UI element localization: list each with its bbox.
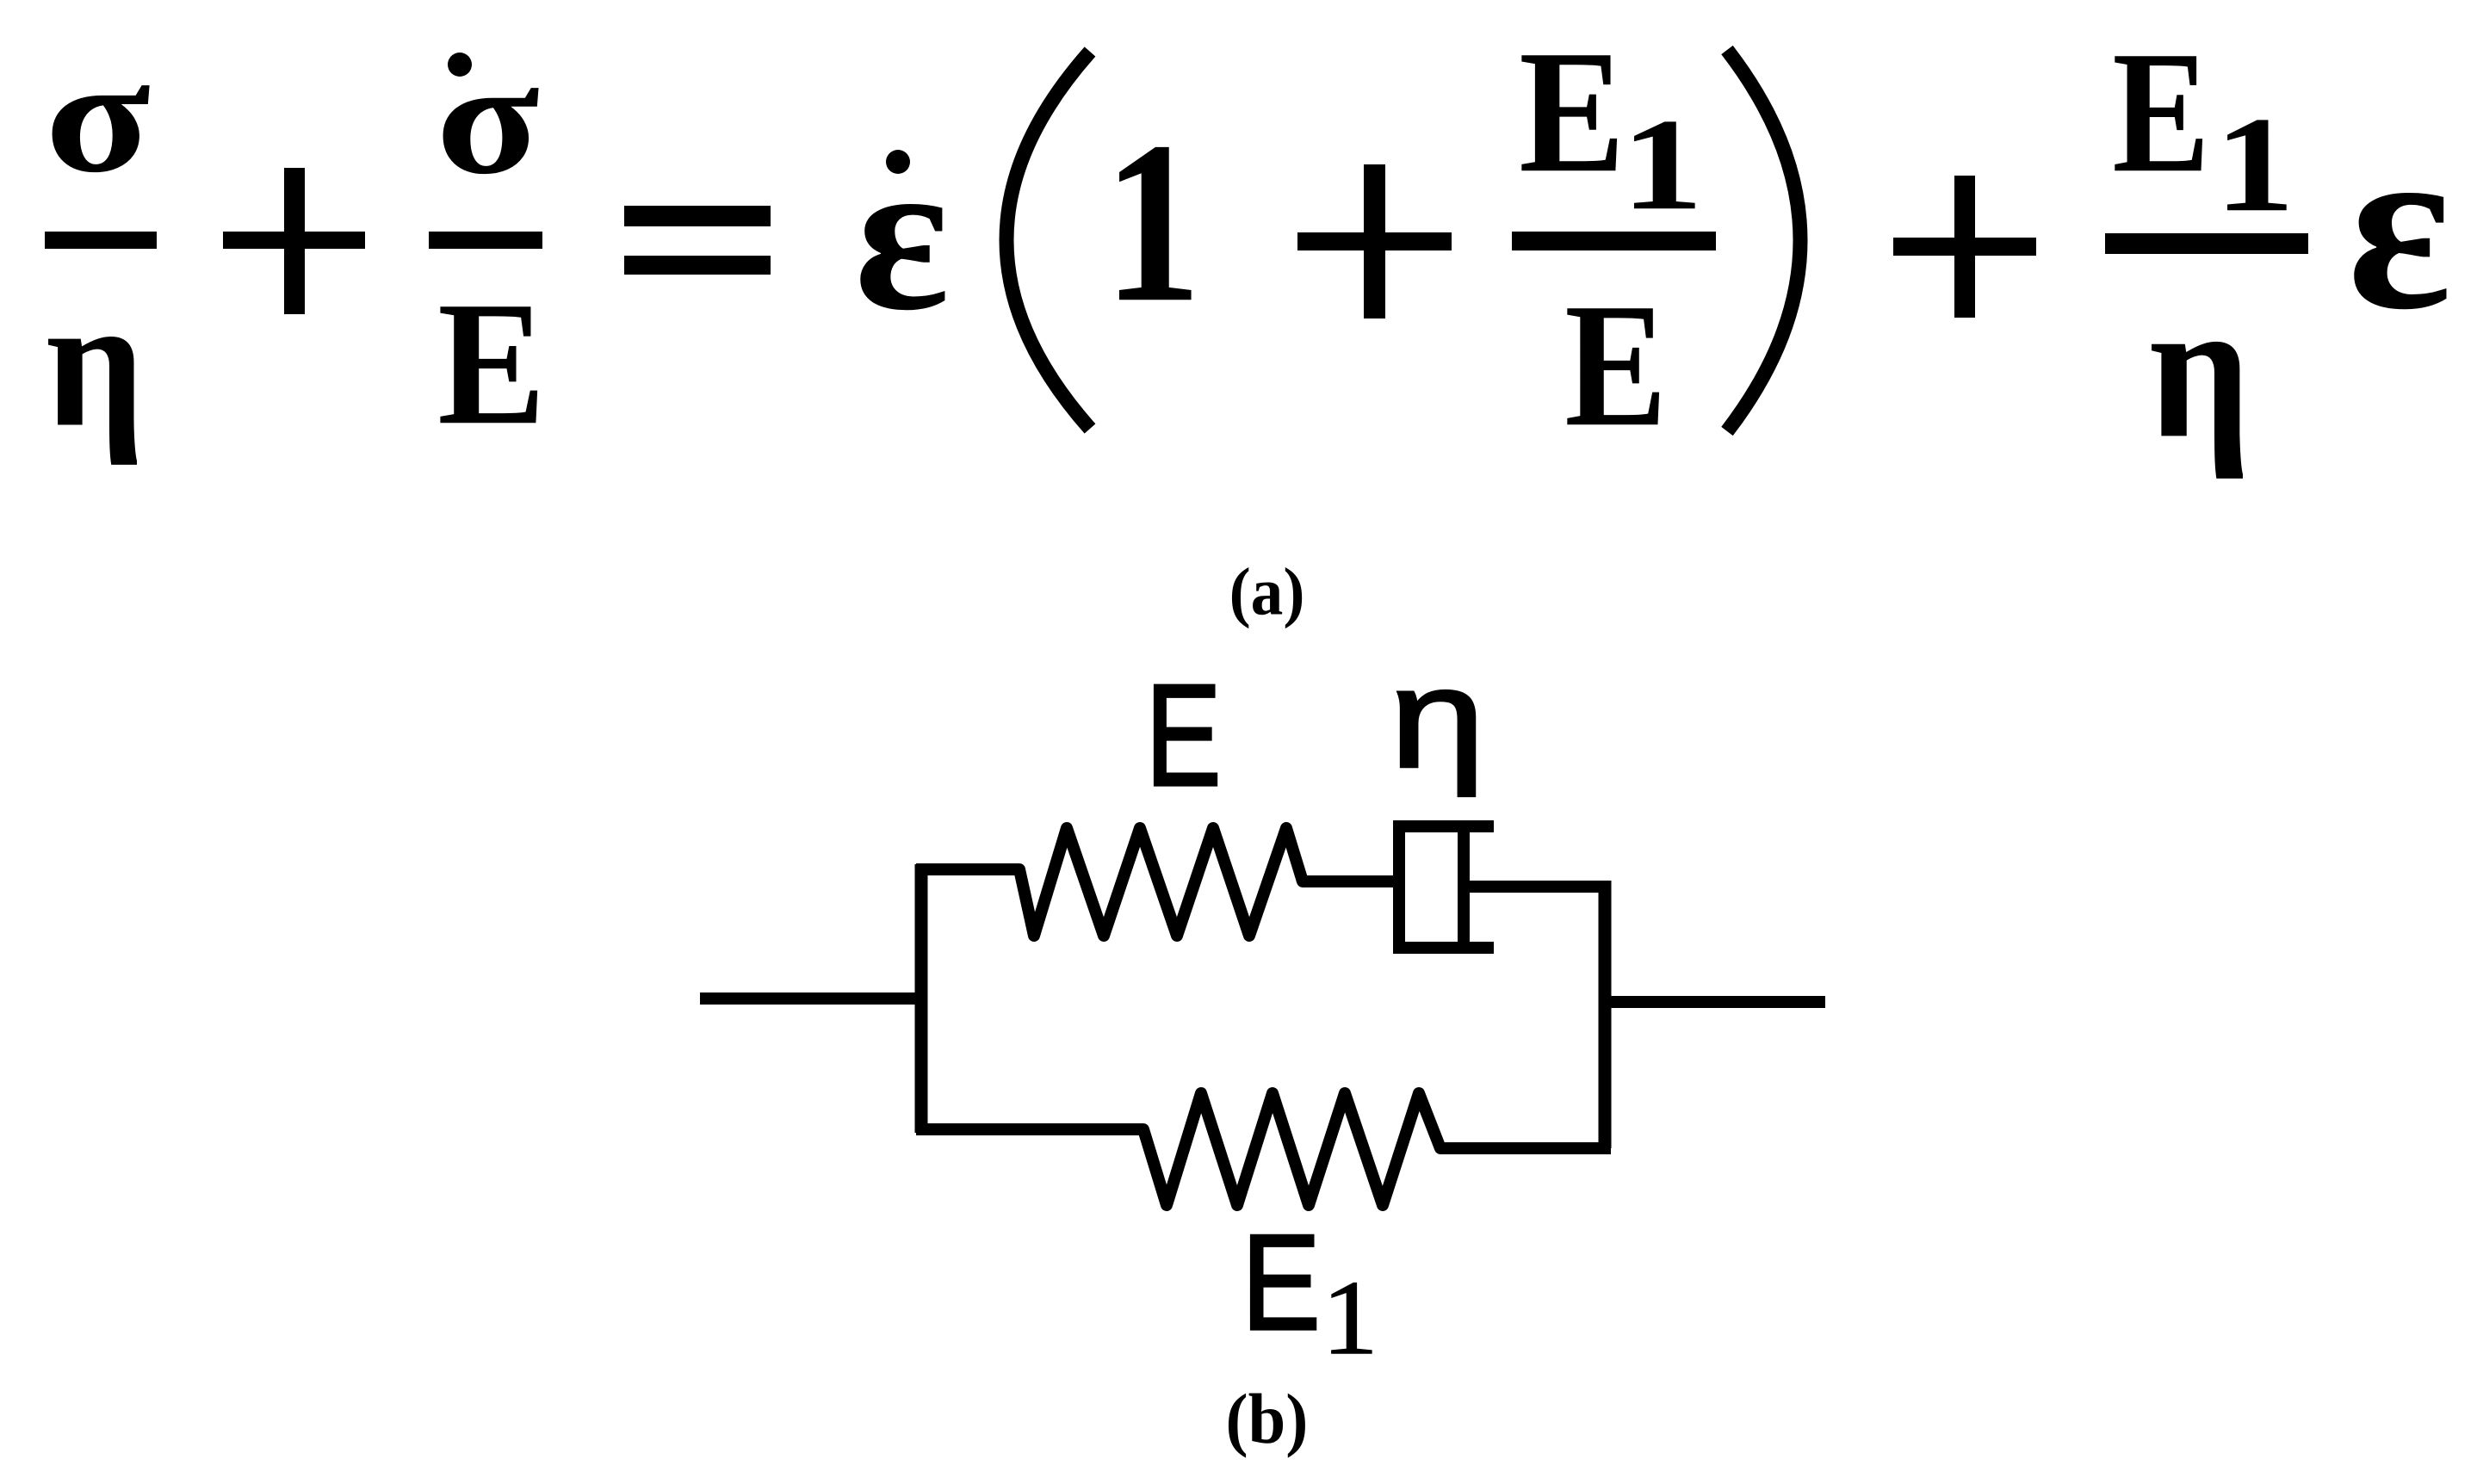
fraction bar sigma-dot/E: [429, 232, 542, 249]
svg-text:E: E: [2112, 15, 2209, 209]
svg-text:E: E: [1519, 15, 1625, 210]
dashpot eta piston plate: [1458, 828, 1470, 946]
dot over epsilon (epsilon-dot): [886, 150, 910, 174]
svg-text:ε: ε: [2348, 91, 2452, 359]
right junction node bar: [1599, 881, 1612, 1148]
fraction bar E1/E: [1512, 232, 1716, 250]
operator plus 1: [223, 168, 365, 314]
operator plus 3: [1893, 176, 2036, 318]
svg-text:1: 1: [1621, 91, 1704, 238]
dashpot eta cylinder cup: [1399, 826, 1494, 948]
dashpot eta piston rod: [1470, 881, 1608, 893]
svg-text:E: E: [437, 264, 546, 461]
fraction bar E1/eta: [2105, 233, 2308, 254]
svg-text:1: 1: [2214, 90, 2294, 240]
svg-text:η: η: [46, 259, 145, 467]
equals sign: [624, 206, 771, 275]
left lead wire: [700, 992, 927, 1005]
svg-text:η: η: [1390, 640, 1485, 797]
big right parenthesis: [1727, 50, 1800, 431]
wire bottom branch + spring E1 zigzag + wire to right node: [916, 1093, 1611, 1205]
svg-text:1: 1: [1104, 93, 1202, 349]
svg-text:(b): (b): [1226, 1380, 1309, 1458]
svg-text:ε: ε: [854, 112, 950, 356]
svg-text:E: E: [1242, 1207, 1321, 1358]
wire top branch + spring E zigzag + wire to dashpot: [916, 828, 1399, 936]
svg-text:1: 1: [1322, 1258, 1378, 1377]
svg-text:η: η: [2149, 258, 2251, 479]
svg-text:E: E: [1145, 655, 1221, 817]
fraction bar sigma/eta: [45, 232, 157, 249]
svg-text:σ: σ: [436, 28, 540, 208]
right lead wire: [1599, 996, 1825, 1008]
operator plus 2 inside parentheses: [1297, 164, 1452, 318]
svg-text:σ: σ: [45, 26, 151, 207]
left junction node bar: [915, 864, 928, 1133]
svg-text:(a): (a): [1229, 553, 1305, 629]
dot over sigma (sigma-dot): [448, 53, 472, 77]
svg-text:E: E: [1564, 266, 1667, 463]
big left parenthesis: [1006, 52, 1090, 429]
